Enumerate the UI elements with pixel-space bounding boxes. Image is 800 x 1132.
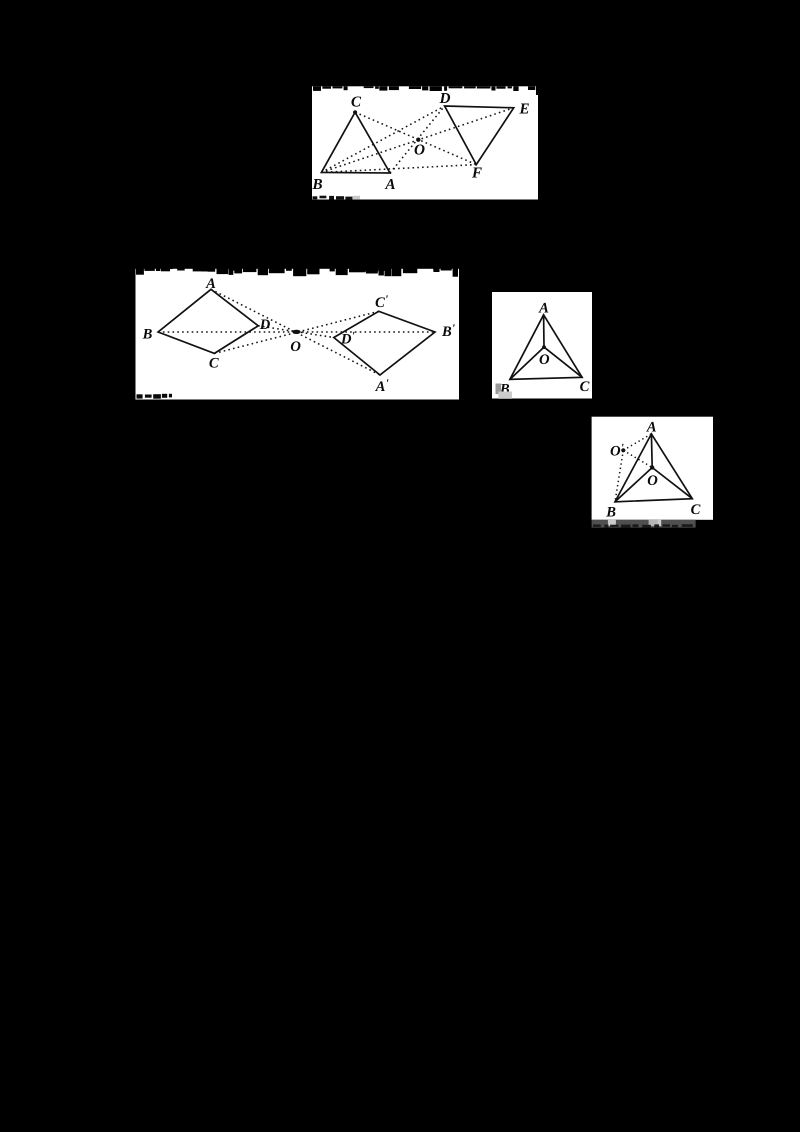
label A fig4 (646, 422, 656, 432)
dotted segment O'A (623, 434, 651, 450)
label O' fig4 (611, 446, 621, 456)
figure 1 caption remnant (313, 196, 318, 199)
label B fig4 (606, 507, 615, 517)
figure 4 caption gray strip (592, 520, 696, 528)
cevian OC (544, 347, 582, 377)
label C fig4 (691, 504, 700, 514)
dotted segment CF (355, 112, 476, 164)
label C' fig2 (376, 297, 385, 307)
label F fig1 (472, 168, 482, 178)
dotted segment AA' (211, 289, 380, 375)
label C fig2 (209, 358, 218, 368)
quadrilateral A'B'C'D' (334, 311, 435, 375)
figure 2 caption remnant (137, 394, 143, 398)
dotted segment DD' (258, 326, 334, 338)
node dot O fig1 (416, 138, 420, 142)
node dot O fig4 (650, 465, 654, 469)
cevian OA fig4 (650, 434, 653, 468)
cevian OB (510, 347, 544, 379)
dotted segment CC' (214, 311, 378, 353)
label O fig4 (648, 475, 658, 485)
label B fig2 (143, 329, 152, 339)
label O fig1 (415, 144, 425, 154)
node dot C (353, 110, 357, 114)
label C fig1 (351, 96, 361, 106)
cevian OC fig4 (652, 468, 692, 499)
figure 4 white box (592, 417, 713, 520)
label D' fig2 (341, 334, 351, 344)
quadrilateral ABCD (158, 289, 258, 353)
label B fig3 (500, 384, 509, 394)
node dot O fig3 (542, 345, 546, 349)
dotted segment O'B (615, 450, 623, 502)
label B' fig2 (442, 326, 451, 336)
label D fig2 (260, 319, 270, 329)
label A fig3 (538, 303, 548, 313)
cevian OA (543, 315, 545, 347)
triangle ABC fig4 (615, 434, 692, 502)
triangle ABC fig3 (510, 315, 582, 380)
figure 1 white box (312, 95, 538, 200)
label D fig1 (439, 93, 450, 103)
dotted segment BB' (158, 331, 435, 333)
triangle DEF fig1 (445, 106, 514, 165)
label A fig2 (205, 278, 215, 288)
figure 2 white box (136, 262, 460, 400)
node O fig2 (292, 330, 300, 334)
figure 1 top white band with text remnants (312, 86, 536, 98)
cevian OB fig4 (615, 468, 652, 502)
label A' fig2 (375, 381, 385, 391)
figure 2 top text remnant bar (136, 262, 460, 269)
label C fig3 (580, 381, 589, 391)
label A fig1 (385, 179, 395, 189)
label B fig1 (312, 179, 322, 189)
figure 3 white box (492, 292, 592, 399)
dotted segment BD (321, 106, 444, 172)
dotted segment BE (321, 108, 513, 173)
gray scan mark fig3 corner (496, 384, 502, 395)
label O fig3 (540, 354, 550, 364)
label E fig1 (519, 104, 529, 114)
node dot O' fig4 (621, 448, 625, 452)
dotted segment BF (321, 165, 476, 173)
triangle ABC fig1 (321, 112, 390, 173)
dotted segment AD (390, 106, 445, 173)
label O fig2 (291, 341, 301, 351)
dotted segment O'O (623, 450, 652, 467)
